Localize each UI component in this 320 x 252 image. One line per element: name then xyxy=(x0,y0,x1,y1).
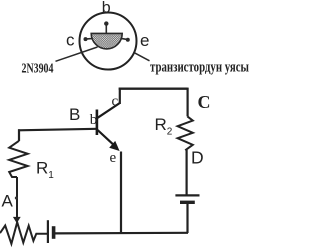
svg-text:R1: R1 xyxy=(36,159,54,182)
pin b dot xyxy=(104,21,108,25)
svg-text:D: D xyxy=(191,147,204,167)
transistor socket circle xyxy=(80,13,137,70)
transistor package half-disc xyxy=(91,33,122,49)
wire base horizontal xyxy=(18,129,97,131)
wire battery drop xyxy=(186,202,188,233)
resistor R1 xyxy=(9,141,28,177)
svg-text:e: e xyxy=(110,150,117,166)
svg-text:транзистордун уясы: транзистордун уясы xyxy=(150,59,249,75)
transistor Q1 emitter diagonal xyxy=(98,130,114,145)
wire collector riser xyxy=(119,88,121,104)
transistor Q1 collector diagonal xyxy=(98,103,120,118)
battery BT2 long plate xyxy=(175,194,199,196)
svg-text:2N3904: 2N3904 xyxy=(22,61,54,76)
pin b lead xyxy=(105,25,107,33)
wire right riser xyxy=(187,88,189,117)
wire left riser to R1 xyxy=(18,129,20,141)
battery BT2 short plate xyxy=(180,201,195,204)
pin c lead xyxy=(87,38,92,40)
svg-text:b: b xyxy=(90,112,98,128)
pin e dot xyxy=(126,38,130,42)
transistor Q1 emitter arrowhead xyxy=(109,141,119,151)
svg-text:b: b xyxy=(102,0,111,17)
svg-text:e: e xyxy=(140,31,149,50)
svg-text:c: c xyxy=(66,31,75,50)
svg-text:R2: R2 xyxy=(155,115,173,138)
pointer line to socket caption xyxy=(134,53,150,61)
wire bottom run xyxy=(54,232,188,235)
wire R2 to battery xyxy=(186,150,188,195)
pin c dot xyxy=(84,37,88,41)
wire top run xyxy=(119,87,188,89)
junction dot on wiper wire xyxy=(15,197,18,200)
battery BT1 long plate xyxy=(47,220,49,243)
svg-text:c: c xyxy=(112,94,119,110)
resistor R2 xyxy=(178,116,193,150)
svg-text:C: C xyxy=(198,92,211,112)
pin e lead xyxy=(122,38,127,41)
transistor Q1 base bar xyxy=(96,110,99,136)
potentiometer track xyxy=(0,222,47,244)
svg-text:A: A xyxy=(2,191,14,210)
svg-text:B: B xyxy=(69,105,80,124)
wire emitter drop xyxy=(120,152,122,234)
battery BT1 short plate xyxy=(52,226,56,239)
wiper arrowhead A xyxy=(13,217,21,223)
wire R1 to wiper xyxy=(16,177,18,218)
pointer line to 2N3904 xyxy=(56,47,98,61)
